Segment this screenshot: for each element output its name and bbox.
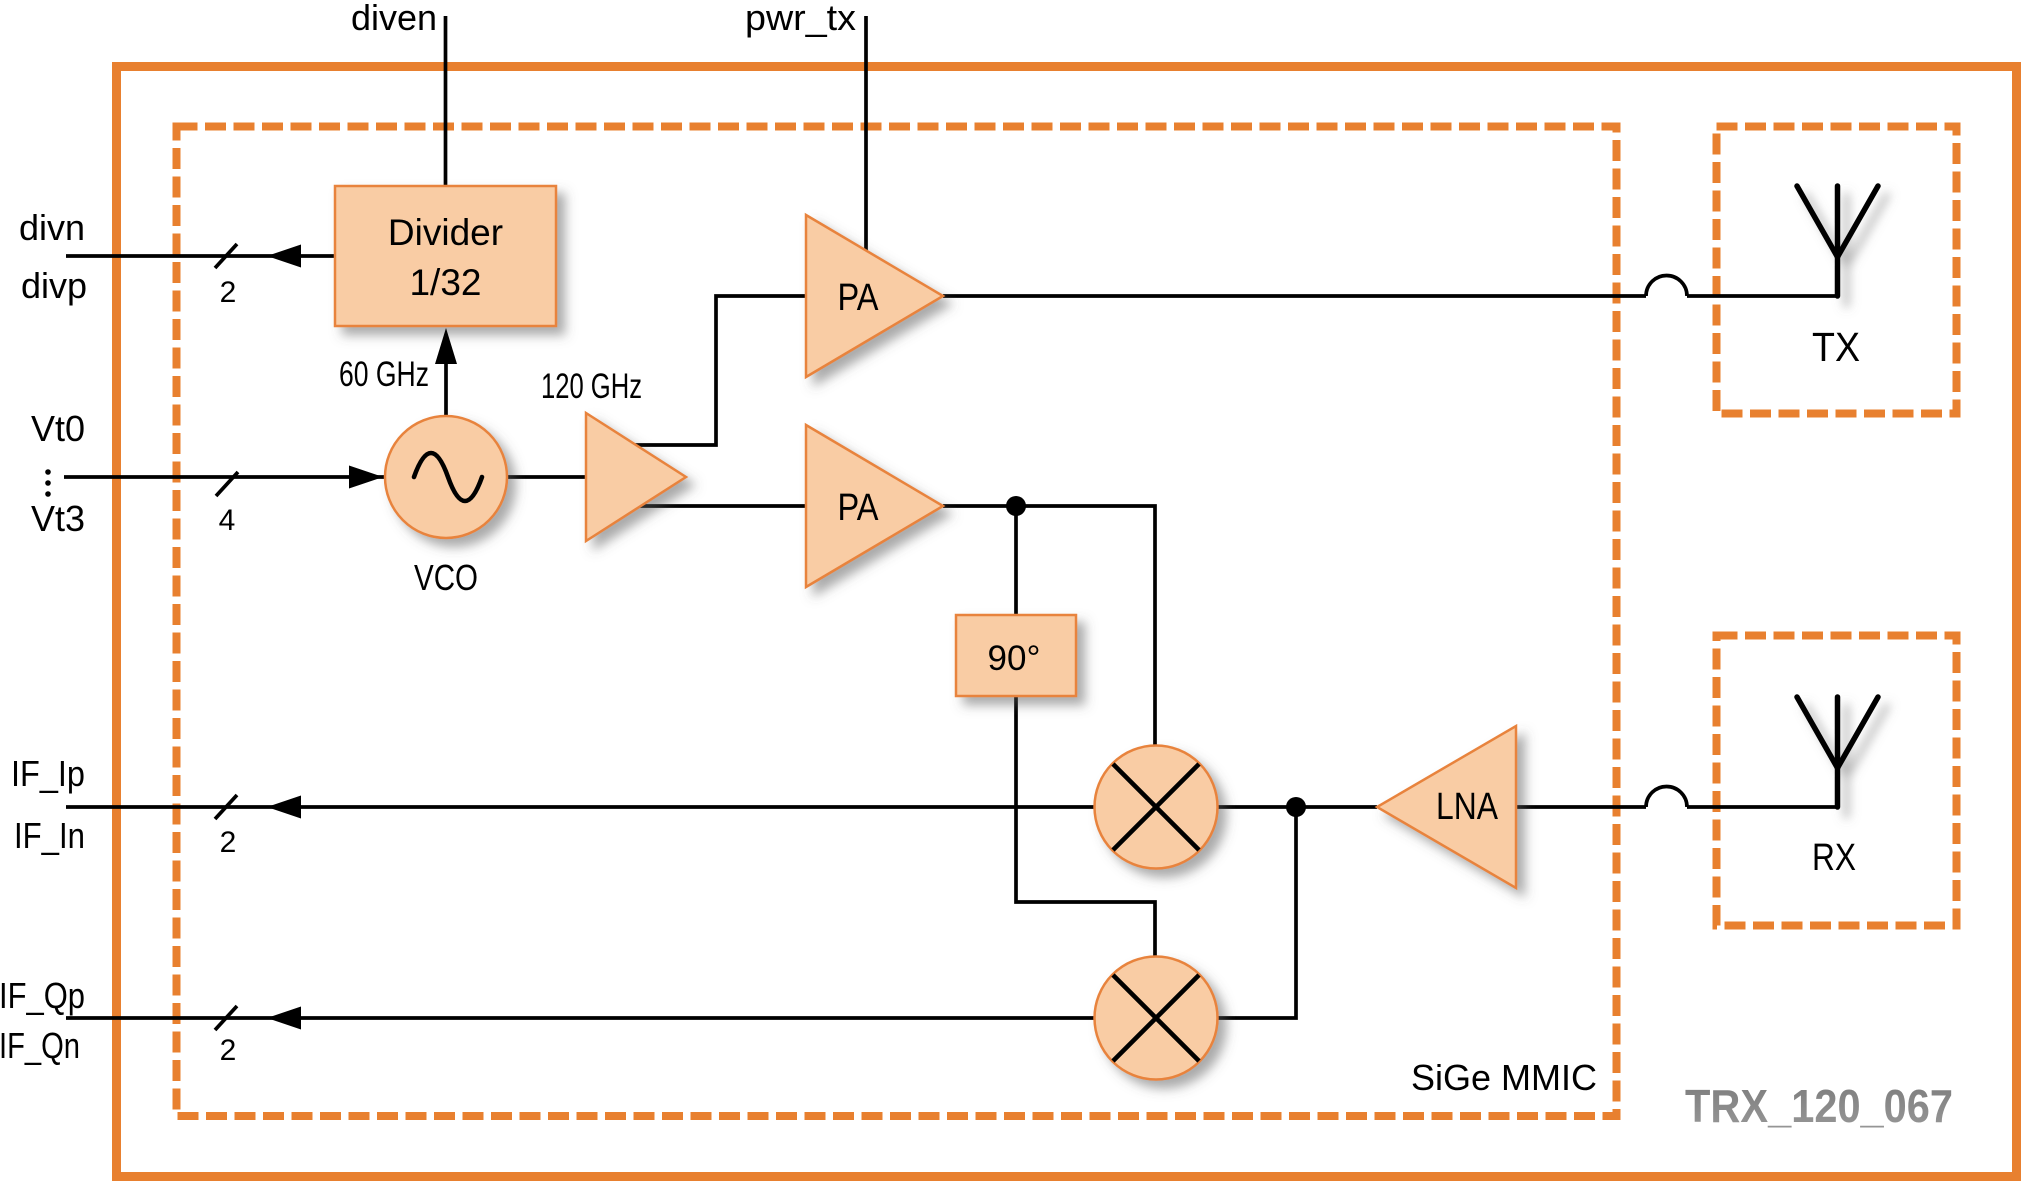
svg-text:IF_Qp: IF_Qp [0, 975, 85, 1016]
bus slash IF_Q (2) [215, 1006, 237, 1030]
svg-text:4: 4 [219, 504, 236, 537]
svg-text:pwr_tx: pwr_tx [745, 0, 856, 38]
svg-text:Vt3: Vt3 [31, 498, 85, 539]
svg-text:2: 2 [220, 276, 237, 309]
arrowhead 60GHz into divider [435, 328, 457, 364]
wire IF_Q output [66, 1016, 1156, 1020]
svg-text:2: 2 [220, 1034, 237, 1067]
svg-text:SiGe MMIC: SiGe MMIC [1411, 1057, 1597, 1098]
wire VCO to divider (60 GHz) [444, 362, 448, 417]
bond-wire hop TX [1646, 276, 1687, 297]
wire PA1 to TX [943, 294, 1646, 298]
wire LNA input from RX [1516, 805, 1646, 809]
VCO oscillator circle [385, 416, 507, 538]
LNA amplifier [1377, 726, 1516, 888]
arrowhead Vt into VCO [349, 466, 383, 489]
bus slash IF_I (2) [215, 795, 237, 819]
svg-text:RX: RX [1812, 837, 1856, 879]
RX dashed frame [1717, 636, 1957, 926]
svg-text:divn: divn [19, 207, 85, 248]
svg-text:TX: TX [1812, 324, 1860, 370]
node A junction dot [1006, 496, 1026, 516]
wire diven input [444, 16, 448, 200]
svg-text:TRX_120_067: TRX_120_067 [1685, 1080, 1953, 1132]
svg-text:Vt0: Vt0 [31, 408, 85, 449]
wire pwr_tx input [864, 16, 868, 254]
wire divn/divp bus from divider [66, 254, 335, 258]
svg-text:120 GHz: 120 GHz [541, 367, 642, 406]
arrowhead IF_Q out [267, 1007, 301, 1030]
VCO sine symbol [414, 453, 482, 501]
arrowhead divn/divp out [267, 245, 301, 268]
wire Vt tuning bus into VCO [64, 475, 446, 479]
wire VCO to buffer [505, 475, 590, 479]
svg-text:IF_Qn: IF_Qn [0, 1025, 80, 1066]
bond-wire hop RX [1646, 787, 1687, 808]
90-degree phase shifter [956, 615, 1076, 696]
RX antenna [1797, 697, 1878, 807]
buffer amplifier [586, 413, 686, 541]
wire 90-degree shifter to mixer2 LO [1016, 696, 1155, 1018]
svg-text:Divider: Divider [388, 212, 503, 253]
node B junction dot [1286, 797, 1306, 817]
svg-text:IF_Ip: IF_Ip [11, 753, 85, 794]
divider block [335, 186, 556, 326]
wire PA2 output to node A [943, 504, 1016, 508]
bus slash divn (2) [215, 244, 237, 268]
SiGe MMIC dashed frame [177, 127, 1617, 1117]
wire hop to RX antenna [1687, 805, 1838, 809]
svg-text:PA: PA [838, 487, 880, 529]
wire IF_I output [66, 805, 1156, 809]
svg-text:LNA: LNA [1436, 786, 1499, 828]
wire node B to mixer2 RF [1156, 807, 1296, 1018]
bus slash Vt (4) [216, 472, 238, 496]
svg-text:90°: 90° [988, 639, 1041, 678]
arrowhead IF_I out [267, 796, 301, 819]
wire node A to mixer1 LO [1016, 506, 1155, 807]
wire buffer to PA1 [630, 296, 806, 445]
mixer M1 (I) [1095, 746, 1218, 869]
power amplifier PA1 [806, 215, 943, 377]
TX dashed frame [1717, 127, 1957, 414]
label vdots [45, 469, 51, 475]
svg-text:divp: divp [21, 265, 87, 306]
TX antenna [1797, 186, 1878, 296]
svg-text:IF_In: IF_In [14, 815, 85, 856]
svg-text:2: 2 [220, 826, 237, 859]
power amplifier PA2 [806, 425, 943, 587]
wire buffer to PA2 [638, 504, 806, 508]
svg-text:1/32: 1/32 [409, 262, 481, 303]
wire mixer1 to LNA (RF) [1156, 805, 1377, 809]
svg-text:VCO: VCO [414, 557, 478, 598]
svg-text:60 GHz: 60 GHz [339, 355, 429, 394]
wire node A to 90-degree shifter [1014, 506, 1018, 615]
svg-text:PA: PA [838, 277, 880, 319]
mixer M2 (Q) [1095, 957, 1218, 1080]
svg-text:diven: diven [351, 0, 437, 38]
wire hop to TX antenna [1687, 294, 1838, 298]
